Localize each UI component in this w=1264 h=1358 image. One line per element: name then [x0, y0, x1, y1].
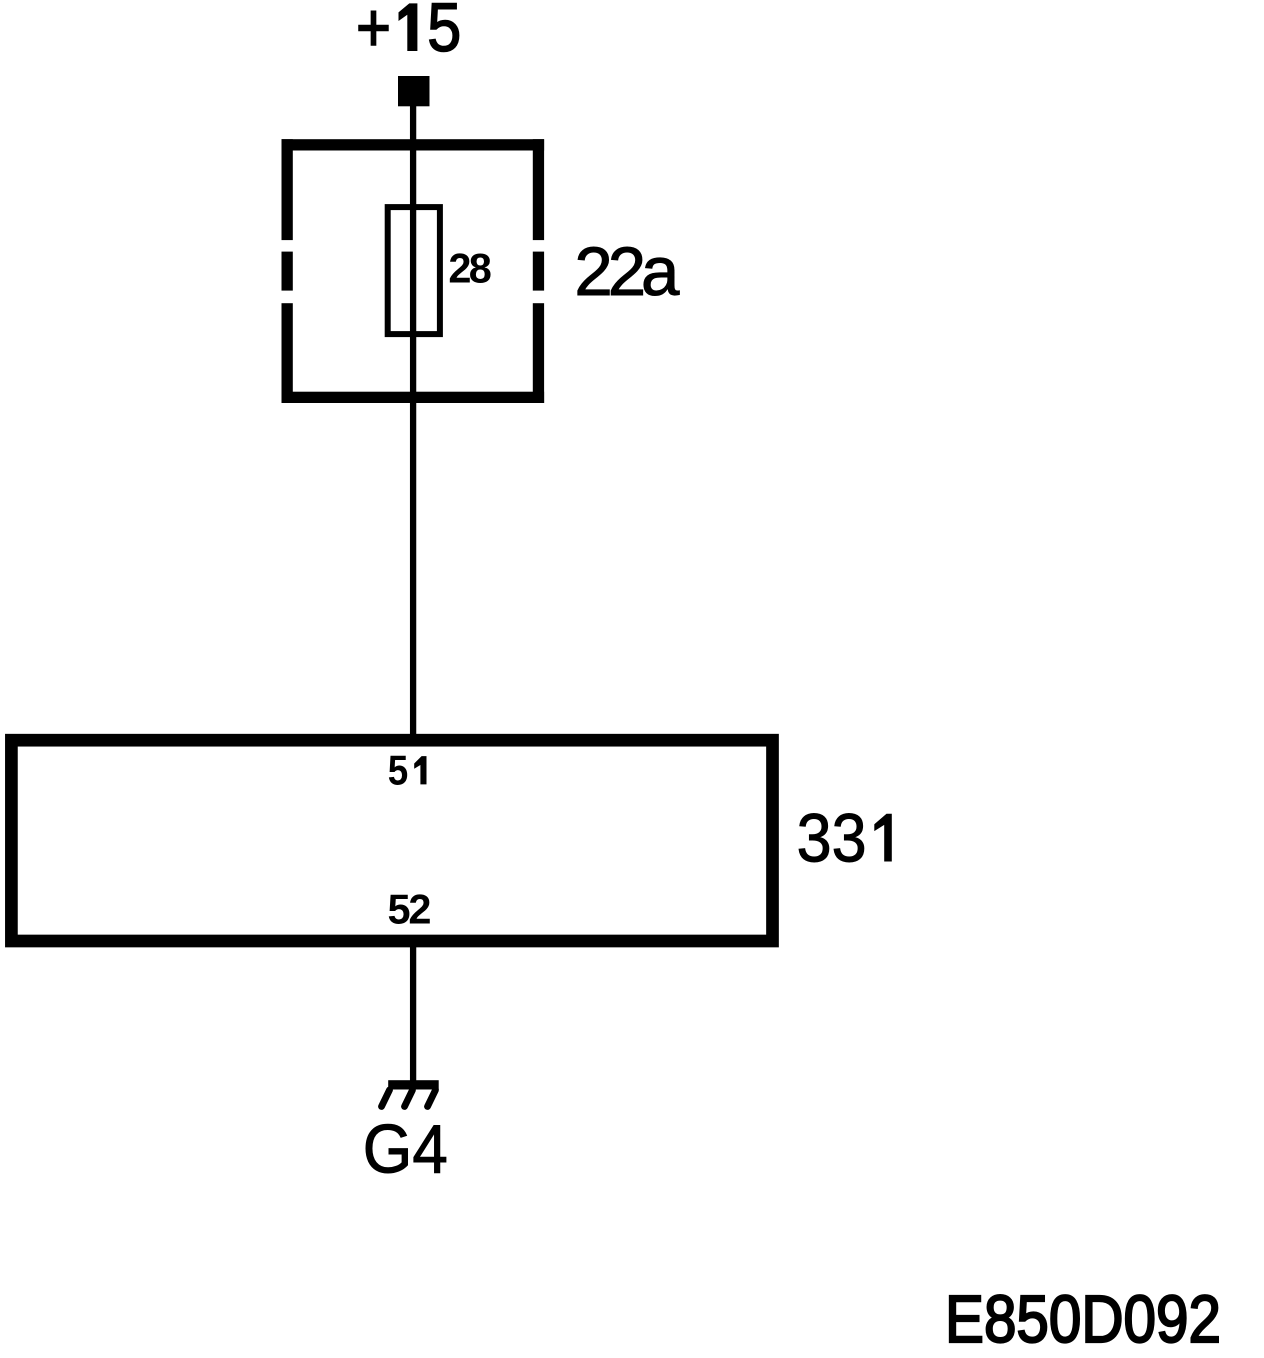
svg-text:5: 5 [427, 0, 461, 66]
svg-text:5: 5 [388, 746, 409, 793]
svg-text:22a: 22a [574, 233, 680, 310]
svg-text:33: 33 [797, 800, 867, 877]
svg-text:+: + [356, 0, 391, 66]
svg-text:28: 28 [448, 245, 492, 292]
svg-text:G4: G4 [363, 1111, 448, 1188]
svg-text:52: 52 [388, 886, 432, 933]
svg-text:E850D092: E850D092 [945, 1282, 1221, 1357]
